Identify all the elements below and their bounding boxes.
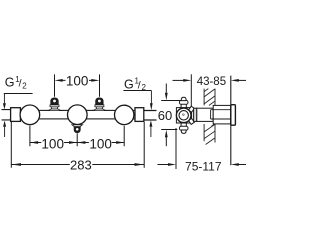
side view: bottom stem [181,123,186,127]
svg-text:75-117: 75-117 [185,159,222,173]
dimension 43-85 [173,74,247,165]
svg-text:100: 100 [66,73,89,88]
svg-text:2: 2 [22,81,27,90]
label G1/2 left [3,75,33,110]
side view: inner tube lines [211,110,231,119]
wire: right nipple lines [144,111,157,121]
wire: left coupling [11,108,21,122]
svg-text:100: 100 [89,136,112,151]
node: rosette circle 1 [20,105,40,125]
side view: wedge bottom [188,118,194,124]
side view: top stem [181,104,186,108]
side view: wedge top [188,106,194,112]
svg-text:60: 60 [158,108,172,123]
wall hatching [204,89,215,145]
arrow up at left port [3,121,6,137]
valve stem S2 top (x=99.4) [93,98,106,111]
svg-text:283: 283 [70,157,92,172]
svg-text:43-85: 43-85 [197,76,226,88]
wire: right coupling [135,108,144,122]
dimension 100/100 bottom [30,126,124,147]
label G1/2 right [123,77,152,111]
svg-text:G: G [124,77,134,91]
node: rosette circle 3 [115,105,134,124]
dimension 60 [161,84,181,147]
svg-text:G: G [5,76,15,90]
arrow up at right port [149,120,152,137]
valve stem S3 bottom (x=77.2) [72,125,83,133]
wire: front view main tube [20,110,136,119]
svg-text:/: / [138,79,141,91]
side view: clamp band [194,108,197,121]
svg-text:/: / [19,78,22,90]
dimension 75-117 [158,128,247,169]
side view: main body [197,108,213,121]
valve stem S1 top (x=54.5) [48,98,61,111]
dimension 283 [11,122,144,168]
wire: left nipple [2,110,12,120]
side view: cross fitting body [176,97,235,133]
dimension 100 top [55,74,100,96]
side view: port circles [176,108,191,123]
side view: end cap [231,105,236,126]
node: rosette circle 2 [68,105,88,125]
svg-text:100: 100 [41,136,64,151]
side view: sleeve through wall [213,105,231,124]
